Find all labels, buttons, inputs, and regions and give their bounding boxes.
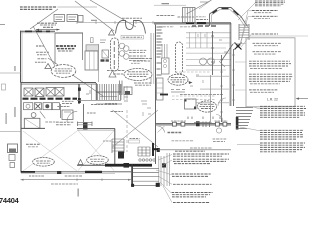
island dashed line 2: [172, 99, 215, 101]
garage right wall: [114, 129, 116, 164]
G15 lower right note blocks: [237, 106, 306, 152]
entry steps bottom: [236, 126, 248, 129]
note row 3b: [249, 63, 291, 65]
vanity box 3: [43, 103, 52, 110]
garage top texts: [91, 104, 117, 105]
bath texts row3: [57, 106, 70, 108]
interior wall mid: [212, 31, 214, 75]
room2 label dense line1: [56, 45, 76, 47]
G4 top-middle features: [77, 18, 154, 82]
garage bottom dark seg 2: [85, 171, 102, 173]
dim line bottom: [21, 179, 132, 181]
garage text row b: [111, 111, 124, 113]
long diagonal into cloud: [33, 26, 55, 66]
garage text row c: [87, 112, 96, 114]
dim text above porch edge: [190, 147, 213, 149]
callout under bump: [121, 35, 144, 39]
note row 5b: [250, 91, 274, 93]
beam dashed upper: [175, 71, 210, 73]
dim line top: [154, 4, 186, 6]
foyer text block r4: [129, 57, 144, 59]
arrow right of cloud Cp: [189, 81, 193, 84]
G10 deck steps: [131, 153, 169, 187]
pantry wall x210: [210, 75, 212, 122]
leader to top block: [238, 3, 255, 20]
small box a: [9, 155, 15, 161]
garage wall posts: [57, 171, 61, 174]
room2 label dense line2: [57, 48, 75, 50]
G5 mid band walls and bath: [0, 83, 96, 173]
nook wall lines: [120, 81, 123, 96]
skylight hatch box 4: [55, 88, 64, 97]
nook window boxes: [124, 87, 132, 95]
top wall room2: [55, 32, 83, 34]
entry stair rails: [238, 24, 240, 40]
kitchen wall x221: [221, 55, 223, 122]
text line royal 1: [56, 121, 74, 123]
post labels left: [171, 120, 186, 122]
porch cloud: [197, 101, 216, 112]
stair side walls: [95, 83, 97, 100]
small text above cloudC: [131, 62, 141, 64]
dim text above dim line: [43, 26, 53, 28]
G2 upper-left rooms: [0, 31, 93, 83]
long diagonal to plan center: [48, 58, 103, 96]
skylight hatch box 3: [46, 88, 55, 97]
foyer wall line 1: [150, 33, 152, 84]
garage bottom wall thick: [21, 171, 35, 173]
marks under nook: [141, 101, 151, 116]
room2 label line3: [58, 50, 73, 52]
leader diagonal 2: [90, 0, 136, 27]
cloud text line3: [56, 72, 70, 74]
center door dark blob: [196, 121, 200, 126]
slope text 2: [113, 73, 125, 75]
cloud text line1: [55, 68, 72, 70]
door arcs lower right: [218, 98, 226, 106]
dinette diagonal wall: [222, 44, 233, 60]
note row 4b: [249, 76, 293, 78]
leader into box left: [233, 43, 246, 45]
node X dark: [235, 43, 242, 50]
leader from note: [58, 6, 98, 8]
triangle symbol: [45, 64, 51, 69]
post 3: [216, 122, 220, 126]
leader to box mid: [235, 61, 246, 63]
front wall inner: [156, 125, 231, 127]
G17 sheet number: [0, 196, 20, 205]
leader diagonal 1: [75, 1, 114, 31]
note row 2a: [253, 51, 282, 53]
posts row small ticks: [188, 117, 220, 120]
post 4: [223, 122, 227, 126]
deck dark corner bl: [131, 184, 134, 187]
closet wall x91: [91, 84, 93, 100]
wall right of bath: [60, 104, 62, 118]
skylight hatch box 1: [24, 88, 33, 96]
leader b: [162, 160, 172, 166]
top wall dark line: [20, 30, 55, 32]
lookout text 2: [133, 60, 150, 62]
porch edge dark segs: [152, 148, 158, 150]
left dim leader: [0, 72, 21, 74]
note row 4c: [249, 78, 291, 80]
garage bay2 brace: [78, 131, 114, 171]
note row 4a: [249, 73, 292, 75]
G14 right notes column: [233, 1, 308, 107]
text under cloud C: [134, 82, 152, 84]
hall toilet box: [62, 110, 73, 120]
left wall outer: [20, 31, 22, 83]
right wall great room: [230, 23, 232, 106]
wall continuation: [77, 164, 105, 166]
marks row under nook: [171, 90, 185, 93]
dim tick top right: [200, 1, 208, 3]
room1 small text 2: [37, 54, 47, 56]
interior wall ticks: [211, 36, 214, 62]
basement stair upper grid: [112, 139, 124, 151]
hall wall dark blobs: [78, 88, 81, 91]
porch note 2a: [213, 138, 227, 140]
vanity box 4: [52, 103, 59, 110]
deck dark landing: [162, 163, 166, 167]
arrow from right edge: [297, 98, 308, 100]
garage opening lines: [77, 123, 92, 125]
leader note 1: [252, 10, 278, 12]
G13 entry right side: [199, 0, 253, 130]
left wall dash column: [157, 27, 163, 75]
garage bottom wall: [35, 171, 131, 173]
vanity box 2: [34, 103, 41, 110]
turret window dark segs: [213, 9, 239, 16]
bath texts row1: [62, 100, 74, 102]
G16 bottom center leader notes: [156, 151, 229, 202]
schedule box 3: [78, 16, 83, 23]
porch note 1: [172, 140, 195, 142]
note L4: [173, 183, 212, 185]
dim text: [91, 19, 97, 21]
room divider wall: [54, 33, 56, 64]
post labels right: [215, 120, 228, 122]
hall wall 2: [83, 104, 85, 129]
note row 1a: [253, 42, 282, 44]
G6 central staircase: [77, 83, 151, 116]
toilet circle: [31, 113, 36, 118]
text right top a: [196, 19, 208, 21]
garage top wall: [77, 128, 115, 130]
bath bottom wall: [21, 127, 45, 129]
note L6: [173, 202, 210, 204]
entry steps treads: [236, 108, 253, 123]
G3 revision cloud left: [51, 65, 76, 78]
vertical revision cloud B: [176, 42, 183, 74]
small marks right of bay: [100, 40, 106, 43]
leader note 2: [252, 15, 278, 17]
cased opening box: [185, 99, 197, 109]
leader a: [158, 155, 172, 161]
left wall lower: [20, 83, 22, 173]
bath texts row2: [62, 103, 72, 105]
hall wall dark: [78, 84, 80, 104]
table circle 1: [200, 58, 207, 65]
deck left dark edge: [131, 164, 133, 186]
text door size: [45, 121, 58, 123]
text line royal 2: [56, 124, 71, 126]
kitchen counter verticals: [162, 44, 167, 58]
leader c: [156, 170, 171, 175]
garage label line1: [26, 143, 40, 145]
room1 label light: [36, 45, 44, 47]
mid wall dark: [21, 82, 97, 84]
entry stair rungs: [239, 25, 249, 38]
basement stair lower grid: [138, 147, 150, 156]
stair bottom wall: [96, 103, 122, 105]
dimension string line: [77, 22, 154, 24]
spindle circles: [139, 159, 141, 161]
top wall inner: [154, 24, 231, 26]
room1 small text 4: [35, 61, 46, 63]
dark wall stub vertical: [152, 143, 154, 156]
note L1: [173, 151, 229, 156]
note row 3c: [249, 65, 288, 67]
note row 4d: [249, 80, 290, 82]
note L3: [172, 174, 212, 176]
garage door text: [130, 138, 140, 140]
kitchen cabinet box: [162, 58, 170, 74]
leader f: [163, 186, 172, 203]
texts under wall: [159, 26, 174, 28]
dinette marks: [219, 61, 225, 67]
leader to box low: [235, 89, 246, 91]
porch script label: [168, 132, 182, 134]
turret bay inner wall: [212, 10, 246, 27]
room1 small text 1: [36, 51, 49, 53]
text built-up 1: [157, 15, 176, 17]
block B2: [260, 130, 303, 139]
landing marks: [86, 90, 128, 101]
leader to B2: [240, 127, 260, 131]
roof diagonal 1: [187, 0, 212, 14]
garage text row: [105, 104, 118, 106]
foyer text block r5: [129, 60, 146, 62]
schedule box 2: [67, 15, 78, 22]
marks triangle: [109, 71, 116, 78]
leader note 3 above box: [252, 33, 279, 35]
note L5: [172, 193, 213, 197]
dim text 24-3: [162, 3, 170, 5]
note top-left text line 1: [20, 6, 57, 8]
note row 3d: [250, 67, 282, 69]
scattered tick marks gr: [190, 34, 227, 86]
heavy bearing wall: [105, 164, 152, 167]
bay window upper gray cell: [86, 45, 99, 51]
top leader line across: [250, 35, 308, 37]
stair label: [103, 140, 111, 142]
G11 porch front: [152, 24, 231, 164]
svg-text:74404: 74404: [0, 196, 20, 205]
note row 3a: [249, 60, 290, 62]
leader to B3: [237, 143, 260, 145]
G8 revision clouds garage: [33, 156, 109, 166]
left dim rotated text c: [6, 113, 7, 124]
dark landing blob: [118, 152, 124, 159]
dimension line with arrows: [36, 29, 60, 31]
small box b: [10, 163, 15, 168]
note row 4e: [250, 83, 280, 85]
dim ticks: [77, 21, 153, 24]
ceiling beam grid verticals: [189, 32, 207, 48]
window segs on top wall: [25, 30, 50, 32]
kitchen wall ticks: [220, 60, 223, 112]
cloud text line2: [55, 70, 73, 72]
dark wall segs left: [160, 94, 168, 96]
deck right rails: [159, 153, 170, 186]
mid wall light: [21, 83, 96, 85]
window marks above bay: [91, 38, 94, 43]
leader diagonal to wall corner: [30, 9, 58, 29]
left dim rotated text b: [14, 107, 15, 117]
triangle near cloud: [78, 160, 83, 165]
leader d: [158, 176, 172, 184]
door circle detail: [216, 128, 221, 133]
vanity box 1: [24, 103, 33, 110]
kitchen horizontals: [196, 76, 229, 103]
G9 basement stair and heavy wall: [77, 139, 160, 168]
porch edge bottom: [156, 149, 232, 151]
stair center rail: [96, 91, 121, 93]
door arc: [158, 126, 165, 133]
block B1: [260, 106, 306, 117]
dark window band: [23, 98, 78, 100]
stair right verticals: [124, 86, 127, 100]
text above bump: [122, 17, 142, 19]
note L2: [173, 159, 229, 163]
garage label line2: [28, 146, 38, 148]
room1 small text 3: [38, 58, 47, 60]
island dashed line 1: [172, 95, 215, 97]
left dim rotated text a: [14, 66, 15, 71]
cloud garage right: [87, 156, 109, 165]
door swing: [40, 111, 45, 118]
darker pier: [124, 163, 130, 168]
text line above porch cloud: [180, 94, 223, 96]
bay window outside left: [8, 144, 18, 153]
top wall inner line: [20, 32, 55, 34]
top corner text block: [255, 1, 285, 6]
wall tick marks: [232, 55, 235, 100]
corridor wall x98: [98, 44, 100, 82]
warning triangle: [109, 30, 115, 35]
deck step lines: [133, 169, 159, 186]
sill dashes under wall: [192, 25, 217, 27]
dark door header: [83, 122, 88, 130]
left counters: [157, 78, 164, 100]
chimney box: [183, 8, 196, 23]
hall wall under stairs: [77, 100, 121, 102]
cloud C: [124, 69, 152, 81]
turret bay outer wall: [210, 8, 248, 27]
schedule box 1: [54, 15, 65, 22]
chimney hatch: [185, 8, 193, 23]
lot grade text: [51, 183, 78, 185]
G1 top-left annotations: [0, 0, 136, 96]
tub box: [24, 118, 40, 128]
G12 great room: [107, 0, 233, 122]
hall door arc: [67, 111, 77, 122]
entry steps dark edge: [236, 117, 239, 130]
left wall inner: [21, 32, 23, 83]
niche box on corridor wall: [102, 50, 109, 58]
deck dark corner br: [156, 183, 160, 187]
foyer text block r1: [129, 49, 147, 51]
right wall: [233, 49, 235, 106]
dark corner top: [157, 148, 160, 152]
post 1: [173, 122, 177, 126]
slope text 1: [107, 70, 125, 72]
G7 garage: [8, 104, 159, 197]
grid bubbles: [119, 43, 125, 49]
top wall dark: [154, 22, 231, 24]
porch note 2b: [213, 141, 225, 143]
porch left wall: [155, 24, 157, 164]
table circle 2: [208, 58, 215, 65]
ceiling beam grid horizontals: [186, 33, 231, 70]
note row 5a: [249, 89, 278, 91]
center door marks: [203, 122, 210, 128]
window dark segments: [186, 22, 209, 24]
front wall dark: [156, 123, 231, 125]
cloud A inner text: [113, 41, 115, 69]
entry curved bump outline: [116, 21, 146, 34]
small marks left edge: [2, 84, 6, 90]
stair arrow: [100, 96, 117, 98]
turret leader diag: [199, 0, 212, 9]
foyer wall line 2: [153, 33, 155, 84]
dark marks under niche: [101, 59, 105, 61]
foyer text block r2: [129, 52, 145, 54]
post 2: [181, 122, 185, 126]
note row 1b: [254, 45, 278, 47]
left leader lower: [0, 131, 21, 133]
notes box: [246, 38, 295, 107]
left edge tick: [0, 24, 5, 26]
vertical revision cloud A: [111, 38, 119, 71]
bay window box: [85, 51, 98, 70]
leader e: [160, 182, 171, 193]
dim text above bottom: [29, 175, 45, 177]
left rotated text bottom: [78, 189, 79, 197]
skylight hatch box 2: [35, 88, 44, 97]
cloud Cp: [168, 74, 188, 85]
garage bay3 brace: [113, 110, 159, 147]
opening jambs: [78, 122, 93, 127]
text right top b: [196, 16, 206, 18]
garage bay1 brace: [23, 131, 77, 171]
room2 right wall: [82, 33, 84, 60]
leader lines from node: [240, 11, 252, 45]
cloud outline: [51, 65, 76, 78]
note top-left text line 2: [20, 8, 53, 10]
leader to B1: [254, 107, 261, 109]
foyer text block r3: [129, 55, 146, 57]
stair treads: [98, 84, 119, 100]
svg-text:L.R. 22: L.R. 22: [267, 98, 278, 102]
dashed ceiling line: [126, 110, 128, 152]
block B3: [260, 143, 305, 152]
cloud garage left: [33, 158, 55, 167]
note row 2b: [254, 53, 276, 55]
text built-up 2: [178, 16, 195, 18]
